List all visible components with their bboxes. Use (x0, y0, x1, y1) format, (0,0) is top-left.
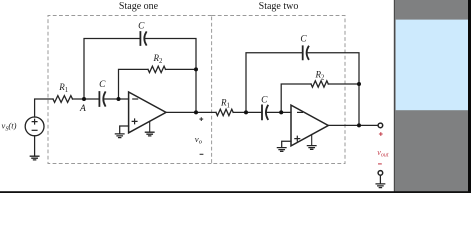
capacitor C series stage two (262, 105, 268, 119)
junction dot feedback cap left stage two (244, 110, 248, 114)
wire R2 left leg stage one (119, 69, 149, 99)
svg-text:R1: R1 (58, 82, 68, 94)
wire source top to main line (35, 99, 53, 117)
label minus of vout (red) (378, 163, 382, 165)
resistor R1 stage one (53, 96, 73, 103)
svg-text:R2: R2 (315, 69, 326, 81)
wire capacitor to op-amp inverting input (103, 98, 128, 100)
right sidebar gray panel (395, 0, 471, 193)
resistor R1 stage two (216, 109, 233, 115)
capacitor C feedback stage two (303, 46, 309, 59)
svg-text:vS(t): vS(t) (2, 121, 17, 133)
capacitor C series stage one (99, 92, 105, 106)
wire feedback capacitor to right vertical stage two (307, 53, 359, 126)
ground (op-amp U2 noninverting) (277, 148, 286, 152)
svg-text:C: C (99, 80, 106, 90)
svg-text:Stage one: Stage one (119, 1, 159, 12)
ground (op-amp U1 noninverting) (115, 134, 124, 138)
wire source bottom to ground (34, 136, 36, 156)
wire node A up to feedback capacitor (84, 39, 140, 100)
junction dot R2 right stage one (194, 67, 198, 71)
junction dot op-amp U1 output (194, 110, 198, 114)
source vS circle (25, 117, 44, 136)
wire lower terminal to ground (379, 175, 381, 183)
svg-text:C: C (261, 96, 268, 106)
wire op-amp U2 output to terminal (328, 124, 378, 126)
stage one dashed box (48, 16, 212, 164)
output terminal upper circle (378, 123, 383, 128)
sidebar light blue box (396, 20, 468, 111)
resistor R2 stage one (148, 66, 166, 72)
resistor R2 stage two (311, 81, 328, 87)
sidebar black right strip (468, 0, 471, 193)
op-amp U1 minus sign (133, 98, 138, 100)
wire feedback capacitor to right vertical (144, 39, 196, 113)
svg-text:C: C (300, 35, 307, 45)
svg-text:C: C (138, 22, 145, 32)
op-amp U2 triangle (291, 105, 328, 146)
ground (output) (376, 184, 385, 188)
op-amp U1 triangle (129, 92, 166, 133)
wire R2 left leg stage two (281, 84, 311, 112)
source minus sign (32, 129, 37, 131)
node A junction dot (82, 97, 86, 101)
junction dot inverting input stage one (117, 97, 121, 101)
junction dot R2 left stage two (279, 110, 283, 114)
wire op-amp U1 noninverting input to ground (120, 126, 129, 134)
wire op-amp U2 noninverting input to ground (282, 141, 291, 147)
junction dot R2 right stage two (357, 82, 361, 86)
wire R1 to node A to capacitor (73, 98, 100, 100)
label plus of vout (red) (379, 132, 383, 136)
stage two dashed box (212, 16, 345, 164)
ground (op-amp U1 body) (149, 121, 151, 132)
op-amp U2 minus sign (298, 111, 303, 113)
label plus of vo (199, 117, 203, 121)
ground (source) (30, 156, 39, 160)
svg-text:R1: R1 (220, 97, 230, 109)
wire capacitor to op-amp U2 inverting input (266, 111, 291, 113)
svg-text:Stage two: Stage two (259, 1, 299, 12)
wire R1 to capacitor stage two (233, 111, 262, 113)
capacitor C feedback stage one (140, 32, 146, 45)
sidebar left border line (394, 0, 395, 193)
svg-text:R2: R2 (153, 53, 164, 65)
wire op-amp U1 output to stage two R1 (166, 111, 216, 113)
op-amp U2 plus sign (295, 136, 300, 141)
source plus sign (32, 119, 37, 124)
junction dot op-amp U2 output (357, 123, 361, 127)
output terminal lower circle (378, 171, 383, 176)
wire R2 right to vertical stage two (328, 83, 359, 85)
label minus of vo (200, 153, 204, 155)
svg-text:A: A (79, 104, 86, 114)
bottom rule (0, 191, 471, 193)
svg-text:vo: vo (195, 134, 202, 146)
svg-text:vout: vout (377, 148, 389, 159)
ground (op-amp U2 body) (311, 135, 313, 146)
op-amp U1 plus sign (132, 119, 137, 124)
wire R2 right to vertical (166, 68, 197, 70)
wire junction up to feedback capacitor stage two (246, 53, 303, 113)
